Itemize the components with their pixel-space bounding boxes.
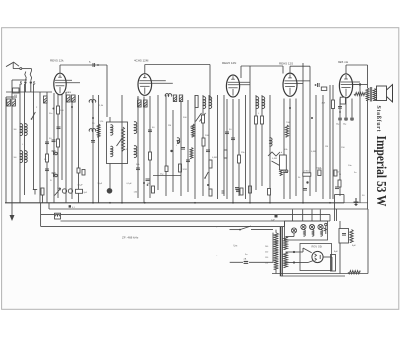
bottom bus 1: [272, 273, 368, 275]
IF transformer T2 coil a: [203, 97, 206, 109]
wire column x47: [46, 92, 48, 203]
wire column x188: [187, 100, 189, 192]
wire column x195: [194, 95, 196, 199]
wire V1 pin c: [61, 95, 63, 181]
svg-text:REH5 12S: REH5 12S: [279, 62, 293, 66]
svg-text:REV5 12k: REV5 12k: [50, 59, 64, 63]
svg-text:1M: 1M: [325, 146, 328, 148]
tube V5 label 9E5 mk: [338, 60, 349, 64]
rectifier tube socket: [312, 251, 323, 262]
bus junction 4: [144, 202, 146, 204]
tone resistor (zigzag): [350, 230, 353, 243]
resistor R18: [209, 160, 212, 168]
value label 4: [49, 138, 52, 140]
value label 25: [318, 168, 322, 170]
ground bus: [5, 195, 368, 207]
resistor R32 horizontal: [76, 189, 88, 194]
resistor R9c (hatched): [144, 100, 148, 107]
capacitor C10: [176, 145, 185, 149]
wire column x158: [157, 95, 159, 190]
wire V2 pin a: [137, 96, 139, 198]
junction V4: [289, 107, 291, 109]
tube V4 REH5 envelope: [283, 73, 310, 96]
antenna wire to band switch: [22, 69, 32, 72]
wire column x256: [255, 95, 257, 190]
capacitor C13: [206, 150, 210, 152]
svg-text:1,5k: 1,5k: [100, 121, 104, 123]
wire switch to coils: [13, 84, 31, 94]
wire left column 2: [11, 80, 13, 203]
wire column x262: [261, 95, 263, 186]
bus junction 1: [92, 202, 94, 204]
svg-text:Staßfurt: Staßfurt: [375, 106, 381, 132]
tube V2 label 4CH5 12M: [134, 59, 149, 63]
wire V2 pin b: [143, 97, 145, 203]
grid leak label: [57, 183, 132, 190]
wire top left join: [6, 80, 27, 97]
wire column x303: [302, 63, 304, 203]
resistor R21: [255, 116, 258, 124]
wire column x166: [165, 95, 167, 196]
wire column x310: [309, 95, 311, 196]
svg-text:9E5 mk: 9E5 mk: [338, 60, 349, 64]
value label 18: [241, 152, 245, 154]
svg-text:1M: 1M: [190, 127, 193, 129]
capacitor C21: [350, 118, 354, 120]
capacitor C8: [136, 168, 140, 170]
svg-text:0,5M: 0,5M: [311, 151, 316, 153]
trimmer capacitor at V1 grid line: [89, 60, 95, 67]
wire V1 pin a: [53, 93, 55, 203]
coupling coil L5a: [89, 100, 96, 142]
rectifier box: [300, 244, 332, 271]
dial lamp 1: [291, 228, 296, 233]
resistor R10 (zigzag): [97, 121, 103, 137]
antenna coil L2: [25, 124, 28, 136]
value label 21: [286, 122, 290, 124]
mains switch S5: [230, 226, 274, 248]
detector switch: [196, 113, 206, 122]
value label 7: [92, 123, 95, 125]
svg-text:150: 150: [265, 257, 268, 259]
rectifier wires: [294, 248, 332, 271]
resistor R20: [238, 155, 241, 163]
value label 29: [354, 172, 357, 174]
transformer bottom wires: [265, 233, 276, 274]
bus line B4: [41, 214, 330, 216]
value label 16: [212, 157, 217, 159]
wire column x224: [223, 95, 225, 196]
svg-text:4CH5 12M: 4CH5 12M: [134, 59, 149, 63]
trimmer R4 (hatched): [44, 96, 48, 103]
mains wire: [230, 261, 273, 263]
value label 10: [136, 164, 140, 166]
wire V1 pin b: [57, 95, 59, 199]
transformer top wires: [276, 230, 295, 264]
value label 9: [124, 149, 128, 151]
wire column x323: [322, 95, 324, 199]
resistor R29: [334, 170, 341, 176]
bus line B6: [41, 203, 285, 227]
value label 26: [325, 146, 328, 148]
value label 8: [99, 105, 104, 107]
oscillator can box: [107, 122, 128, 164]
wire column x122: [121, 95, 123, 203]
svg-text:4M: 4M: [68, 92, 71, 94]
bus line B5: [61, 220, 331, 222]
resistor R8 (hatched): [66, 92, 70, 102]
value label 12: [168, 125, 171, 127]
junction output: [359, 83, 361, 85]
capacitor C14: [225, 132, 229, 134]
svg-text:Imperial 53 W: Imperial 53 W: [374, 136, 389, 207]
value label 22: [284, 149, 288, 151]
resistor R13: [179, 164, 188, 172]
switch S4: [204, 172, 208, 179]
svg-text:0,5M: 0,5M: [212, 157, 217, 159]
wire column x24.5: [24, 84, 26, 195]
IF transformer T3 coil b: [262, 97, 265, 109]
capacitor C19: [317, 168, 322, 176]
capacitor C16: [222, 188, 271, 195]
padder capacitor C1: [45, 142, 49, 144]
dial drive box: [55, 213, 61, 219]
wire V5 pin a: [339, 99, 341, 197]
tube V3 REH5 envelope: [226, 75, 250, 97]
resistor R2 (hatched): [12, 99, 16, 106]
capacitor C7: [148, 130, 152, 132]
value label 2: [36, 107, 38, 109]
bus junction 9: [302, 202, 304, 204]
output transformer secondary winding: [373, 89, 376, 101]
wire column x173: [172, 110, 174, 192]
speaker basket: [377, 86, 387, 101]
svg-text:150: 150: [336, 172, 339, 174]
value label 19: [258, 113, 260, 115]
svg-text:50μ: 50μ: [343, 124, 346, 126]
svg-text:REH5 12N: REH5 12N: [222, 61, 236, 65]
svg-text:300: 300: [14, 129, 17, 131]
capacitor C15: [231, 138, 235, 140]
svg-text:8μF: 8μF: [352, 245, 356, 247]
wire rf top bus: [6, 91, 52, 93]
wire column x217: [217, 95, 219, 199]
wire right rail bottom: [367, 221, 369, 274]
value label 1: [14, 95, 17, 97]
resistor R22: [261, 116, 264, 124]
IF transformer T1 coil b: [134, 146, 137, 158]
field coil resistor (zigzag): [354, 92, 365, 95]
tube V1 REV5 (mixer) envelope: [54, 73, 80, 95]
power transformer core: [280, 227, 282, 276]
capacitor C17: [303, 181, 309, 190]
capacitor C11: [186, 160, 190, 162]
brand text Imperial 53 W: [374, 136, 389, 207]
resistor R3: [46, 154, 49, 162]
resistor R24 (zigzag): [285, 125, 288, 137]
trimmer mark: [283, 170, 288, 173]
svg-text:RGV O5i: RGV O5i: [312, 245, 323, 249]
bus junction 5: [194, 202, 196, 204]
IF frequency label: [122, 236, 139, 240]
oscillator coil L3: [14, 151, 23, 163]
wire column x72: [71, 95, 73, 199]
wire column x245: [245, 95, 247, 199]
wire left column 1: [5, 97, 7, 203]
trimmer T1b: [50, 173, 57, 182]
resistor R17: [202, 138, 205, 146]
svg-text:220: 220: [265, 252, 268, 254]
wire column x40: [39, 92, 41, 203]
junction det: [207, 184, 209, 186]
wire V4 pin a: [283, 99, 285, 200]
svg-text:8μF: 8μF: [334, 251, 338, 253]
resistor R11: [149, 152, 152, 160]
value label 35: [334, 251, 338, 253]
wire V1 pin d: [65, 92, 67, 203]
output transformer core: [370, 87, 371, 102]
output transformer primary winding: [366, 88, 369, 101]
pilot switch: [324, 223, 327, 234]
resistor R19: [224, 150, 227, 158]
resistor R28: [315, 83, 327, 105]
IF transformer T2 coil b: [209, 97, 212, 109]
tone cap: [342, 234, 346, 236]
bus junction 8: [269, 202, 271, 204]
power transformer secondary winding b: [284, 252, 288, 268]
capacitor C18: [311, 107, 342, 189]
value label 20: [272, 158, 277, 160]
value label 33: [216, 255, 218, 257]
svg-text:L: L: [176, 145, 177, 147]
value label 17: [229, 129, 232, 131]
tube V5 top cap wire: [346, 65, 368, 88]
wire pot: [77, 117, 110, 188]
wire ps links: [335, 195, 341, 274]
value label 36: [352, 245, 356, 247]
resistor R5: [57, 106, 65, 114]
value label 13: [183, 117, 187, 119]
resistor R9 (hatched): [72, 95, 76, 102]
dial lamp 3: [309, 224, 314, 236]
resistor R9b (hatched): [137, 98, 141, 108]
smoothing resistor (zigzag): [348, 271, 360, 274]
IF coil L7: [165, 94, 180, 144]
value label 6: [68, 92, 71, 94]
capacitor C22: [336, 118, 342, 125]
AF coupling coil: [268, 138, 282, 176]
osc coil L6a: [111, 125, 113, 157]
bus junction 7: [249, 202, 251, 204]
wire column x203: [202, 95, 204, 196]
capacitor C20: [343, 118, 348, 125]
value label 3: [22, 144, 24, 146]
antenna coil L1: [14, 124, 23, 136]
resistor R15: [173, 95, 198, 108]
wire V3 pin c: [238, 99, 240, 196]
wire column x360: [359, 85, 361, 203]
IF transformer T1 coil a: [134, 122, 137, 134]
wire column x250: [249, 66, 251, 203]
wave switch S2: [31, 112, 36, 120]
lamp pair: [62, 183, 154, 193]
band switch S1b: [30, 72, 36, 86]
bus junction 2: [109, 202, 111, 204]
resistor R6: [57, 139, 60, 147]
wire V5 pin c: [351, 99, 353, 122]
band switch S1a: [20, 72, 27, 86]
speaker wires: [368, 101, 377, 210]
wire column x181: [180, 95, 182, 196]
svg-text:Um: Um: [234, 245, 238, 248]
rectifier pins: [315, 254, 321, 261]
resistor R1 (hatched): [7, 99, 11, 106]
wire column x330: [330, 85, 335, 199]
electrolytic can: [331, 255, 336, 272]
speaker cone: [387, 85, 393, 103]
svg-text:50μ: 50μ: [336, 124, 339, 126]
value label 28: [348, 165, 352, 167]
value label 24: [311, 151, 316, 153]
resistor R12: [160, 166, 168, 176]
power transformer secondary winding a: [284, 237, 288, 250]
tube V4 label REH5 12S: [279, 62, 293, 66]
dial lamp 4: [318, 224, 323, 236]
value label 30: [362, 195, 365, 197]
svg-text:2M: 2M: [168, 125, 171, 127]
svg-text:240: 240: [265, 246, 268, 248]
svg-text:1/2M: 1/2M: [183, 169, 188, 171]
wire det: [153, 175, 181, 177]
svg-text:0,1 MΩ: 0,1 MΩ: [303, 171, 310, 173]
value label 27: [341, 147, 345, 149]
wire column x209: [208, 95, 210, 190]
junction smoothing: [271, 215, 278, 222]
dial lamp box: [285, 210, 328, 241]
wire V4 pin b: [289, 99, 291, 200]
wire column x93: [92, 95, 94, 203]
svg-text:1μF: 1μF: [271, 220, 275, 222]
tube V4 top cap wire: [290, 66, 310, 95]
value label 32: [245, 254, 248, 256]
bus junction 3: [121, 202, 123, 204]
dial lamp 2: [301, 224, 306, 236]
AF transformer box: [280, 152, 287, 170]
wire column x33: [33, 84, 35, 190]
tube V1 top cap wire: [60, 64, 107, 117]
svg-text:ZF: 468 kHz: ZF: 468 kHz: [122, 236, 139, 240]
value label 23: [298, 177, 301, 179]
resistor R30: [336, 172, 341, 188]
wire column x270: [269, 95, 271, 203]
value label 140: [134, 191, 138, 193]
svg-text:0,1μF: 0,1μF: [127, 183, 133, 185]
volume potentiometer knob: [107, 188, 113, 194]
oscillator coil L4: [25, 151, 28, 163]
value label 31: [275, 241, 279, 243]
resistor R27: [303, 171, 311, 177]
resistor R14 (zigzag): [170, 124, 194, 159]
wire column x316: [315, 95, 317, 192]
chassis ground T mark: [33, 189, 37, 195]
capacitor C4: [57, 127, 61, 129]
tube V2 4CH5 envelope: [138, 74, 173, 96]
value label 11: [152, 127, 155, 129]
junction V2: [143, 182, 145, 184]
tube V3 label REH5 12N: [222, 61, 236, 65]
svg-text:300: 300: [14, 157, 17, 159]
mains capacitor C23: [244, 257, 249, 264]
trimmer T1a: [52, 151, 58, 155]
capacitor C3: [49, 108, 56, 142]
tube V1 label REV5 12k: [50, 59, 64, 63]
power transformer primary winding: [274, 233, 279, 269]
capacitor C9: [146, 179, 150, 186]
bus line B3: [49, 203, 368, 209]
wire V2 pin c: [149, 96, 151, 198]
wire column x20: [19, 84, 21, 203]
value label 5: [44, 159, 47, 161]
wire V3 pin a: [226, 99, 228, 199]
tube V2 top cap wire: [145, 65, 210, 101]
svg-text:0,3M: 0,3M: [272, 158, 277, 160]
junction x72: [71, 106, 73, 108]
wire column x98: [98, 95, 100, 203]
tone switch S6: [55, 188, 61, 195]
svg-text:50n: 50n: [49, 113, 52, 115]
osc padder (zigzag): [117, 127, 125, 151]
value label 34: [216, 227, 218, 229]
value label 14: [190, 127, 193, 129]
tube V3 top cap wire: [241, 66, 283, 78]
capacitor C2: [45, 169, 49, 171]
bus junction 10: [329, 202, 331, 204]
bus right connector: [330, 209, 368, 221]
wire V3 pin b: [232, 99, 234, 203]
brand text Stassfurt: [375, 106, 381, 132]
capacitor C12: [209, 186, 252, 196]
wire column x78: [78, 95, 80, 203]
IF transformer T3 coil a: [256, 97, 259, 109]
antenna symbol: [6, 62, 20, 68]
svg-text:4M: 4M: [14, 95, 17, 97]
wire V4 pin c: [295, 99, 297, 197]
bottom bus 2: [281, 275, 345, 277]
bus junction 6: [232, 202, 234, 204]
svg-text:110: 110: [265, 263, 268, 265]
wire V5 pin b: [340, 97, 346, 121]
tube V5 AL4 output envelope: [339, 74, 360, 98]
wire V5 anode to output transformer: [353, 84, 368, 86]
rectifier label RGV O5i: [312, 245, 323, 249]
bus junction cap: [69, 205, 76, 209]
volume control cluster box: [339, 229, 349, 244]
resistor R31 above bus: [41, 188, 44, 203]
resistor R16: [202, 115, 205, 123]
value label 15: [205, 135, 209, 137]
ground arrow: [10, 203, 15, 221]
antenna terminal: [20, 68, 22, 70]
